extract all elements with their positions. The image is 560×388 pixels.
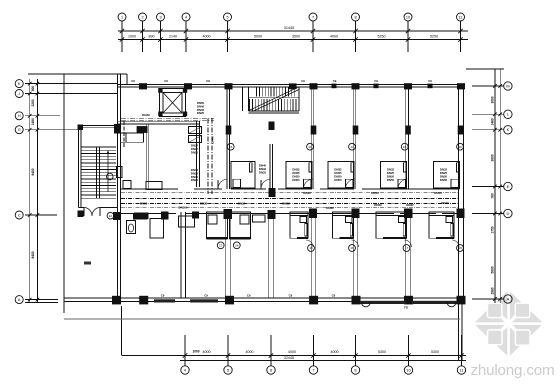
svg-text:780: 780 bbox=[491, 193, 495, 199]
svg-text:C9: C9 bbox=[131, 79, 135, 83]
svg-text:DN32: DN32 bbox=[238, 202, 246, 206]
svg-text:C9: C9 bbox=[333, 79, 337, 83]
svg-text:14: 14 bbox=[235, 243, 239, 247]
svg-text:5250: 5250 bbox=[430, 35, 438, 39]
svg-text:18: 18 bbox=[403, 145, 407, 149]
svg-text:8400: 8400 bbox=[31, 168, 35, 175]
svg-text:15: 15 bbox=[309, 246, 313, 250]
svg-text:1750: 1750 bbox=[491, 226, 495, 233]
svg-text:C9: C9 bbox=[428, 79, 432, 83]
svg-text:1: 1 bbox=[121, 15, 123, 19]
svg-text:4000: 4000 bbox=[203, 35, 211, 39]
svg-text:A: A bbox=[18, 298, 21, 302]
svg-text:DN32: DN32 bbox=[374, 203, 382, 207]
svg-text:4: 4 bbox=[185, 15, 187, 19]
svg-text:DN40: DN40 bbox=[371, 191, 379, 195]
svg-text:C9: C9 bbox=[301, 79, 305, 83]
svg-text:DN50: DN50 bbox=[387, 178, 395, 182]
svg-text:5300: 5300 bbox=[431, 350, 439, 354]
svg-text:17: 17 bbox=[405, 246, 409, 250]
svg-text:2: 2 bbox=[141, 15, 143, 19]
svg-text:13: 13 bbox=[219, 243, 223, 247]
svg-text:A: A bbox=[507, 296, 510, 301]
svg-text:31445: 31445 bbox=[284, 26, 295, 30]
svg-text:17: 17 bbox=[350, 145, 354, 149]
svg-text:C9: C9 bbox=[206, 79, 210, 83]
svg-text:C9: C9 bbox=[164, 79, 168, 83]
svg-text:10: 10 bbox=[406, 367, 411, 372]
svg-text:C: C bbox=[18, 213, 21, 217]
svg-text:DN25: DN25 bbox=[200, 202, 208, 206]
svg-text:12: 12 bbox=[109, 214, 113, 218]
svg-text:19: 19 bbox=[458, 145, 462, 149]
svg-text:2140: 2140 bbox=[169, 35, 177, 39]
svg-text:16: 16 bbox=[350, 246, 354, 250]
svg-text:4000: 4000 bbox=[203, 350, 211, 354]
svg-text:4000: 4000 bbox=[330, 35, 338, 39]
svg-text:C9: C9 bbox=[332, 293, 336, 297]
svg-text:DN40: DN40 bbox=[434, 191, 442, 195]
svg-text:5800: 5800 bbox=[491, 266, 495, 273]
svg-text:1000: 1000 bbox=[192, 350, 199, 354]
svg-text:J: J bbox=[18, 92, 20, 96]
svg-text:C9: C9 bbox=[247, 293, 251, 297]
svg-text:3: 3 bbox=[159, 15, 161, 19]
svg-text:15: 15 bbox=[229, 145, 233, 149]
svg-text:G: G bbox=[18, 128, 21, 132]
svg-text:16: 16 bbox=[308, 145, 312, 149]
svg-text:DN50: DN50 bbox=[292, 178, 300, 182]
svg-text:18: 18 bbox=[458, 246, 462, 250]
svg-text:DN40: DN40 bbox=[142, 113, 150, 117]
svg-text:4000: 4000 bbox=[331, 350, 339, 354]
svg-text:C9: C9 bbox=[204, 293, 208, 297]
svg-text:DN25: DN25 bbox=[191, 178, 199, 182]
svg-text:DN40: DN40 bbox=[441, 201, 449, 205]
svg-text:DN100: DN100 bbox=[179, 206, 188, 210]
svg-text:8: 8 bbox=[354, 15, 356, 19]
svg-text:5000: 5000 bbox=[254, 35, 262, 39]
svg-text:11: 11 bbox=[459, 15, 463, 19]
svg-text:DN32: DN32 bbox=[282, 202, 290, 206]
svg-text:K: K bbox=[18, 82, 21, 86]
svg-text:5: 5 bbox=[226, 15, 228, 19]
svg-text:M: M bbox=[506, 83, 509, 88]
svg-text:DN32: DN32 bbox=[406, 203, 414, 207]
svg-text:890: 890 bbox=[149, 35, 155, 39]
svg-text:H: H bbox=[18, 114, 21, 118]
svg-text:7: 7 bbox=[312, 15, 314, 19]
svg-text:1000: 1000 bbox=[128, 35, 136, 39]
svg-text:DN40: DN40 bbox=[211, 136, 215, 144]
svg-text:DN32: DN32 bbox=[326, 206, 334, 210]
svg-text:800: 800 bbox=[31, 86, 35, 92]
svg-text:1480: 1480 bbox=[31, 118, 35, 125]
svg-text:C9: C9 bbox=[289, 293, 293, 297]
svg-text:DN25: DN25 bbox=[259, 171, 267, 175]
svg-text:2980: 2980 bbox=[491, 287, 495, 294]
svg-text:D: D bbox=[506, 211, 509, 216]
svg-text:E: E bbox=[507, 184, 510, 189]
svg-text:C9: C9 bbox=[374, 79, 378, 83]
svg-text:DN25: DN25 bbox=[197, 111, 205, 115]
svg-text:K: K bbox=[507, 127, 510, 132]
svg-text:5300: 5300 bbox=[378, 350, 386, 354]
svg-text:5250: 5250 bbox=[378, 35, 386, 39]
svg-text:zhulong.com: zhulong.com bbox=[471, 362, 555, 379]
svg-text:10: 10 bbox=[406, 15, 410, 19]
svg-text:1480: 1480 bbox=[491, 118, 495, 125]
svg-text:DN32: DN32 bbox=[303, 191, 311, 195]
svg-text:DN25: DN25 bbox=[140, 202, 148, 206]
svg-text:32445: 32445 bbox=[284, 356, 294, 360]
svg-text:3800: 3800 bbox=[491, 154, 495, 161]
svg-text:FD: FD bbox=[404, 305, 408, 309]
svg-text:C9: C9 bbox=[161, 293, 165, 297]
svg-text:4000: 4000 bbox=[246, 350, 254, 354]
svg-text:4000: 4000 bbox=[288, 350, 296, 354]
svg-text:DN50: DN50 bbox=[334, 178, 342, 182]
svg-text:8400: 8400 bbox=[31, 251, 35, 258]
svg-text:2260: 2260 bbox=[31, 99, 35, 106]
svg-text:3600: 3600 bbox=[491, 96, 495, 103]
svg-text:3500: 3500 bbox=[292, 35, 300, 39]
svg-text:DN50: DN50 bbox=[440, 178, 448, 182]
svg-text:DN20: DN20 bbox=[191, 150, 199, 154]
